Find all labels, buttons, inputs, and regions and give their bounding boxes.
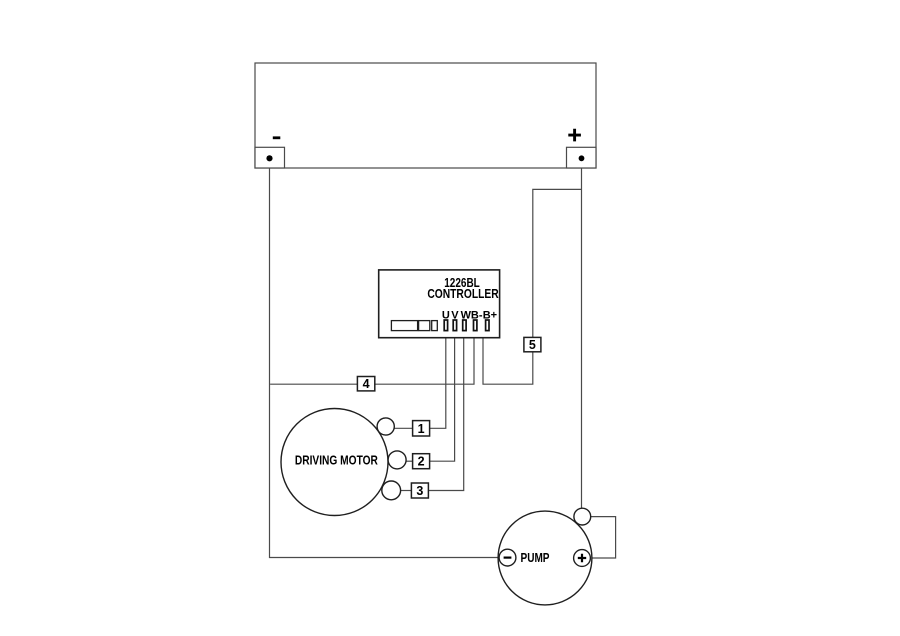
terminal U <box>444 320 447 331</box>
wire U phase (net 1) <box>430 331 446 429</box>
battery negative terminal dot <box>266 155 272 161</box>
wire W phase (net 3) <box>429 331 464 491</box>
svg-text:CONTROLLER: CONTROLLER <box>427 287 498 301</box>
svg-text:1: 1 <box>418 422 425 436</box>
battery positive terminal dot <box>579 155 585 161</box>
svg-text:4: 4 <box>363 377 370 391</box>
controller U1 box <box>379 270 500 338</box>
controller connector block medium <box>419 321 430 331</box>
battery negative terminal box <box>255 147 285 168</box>
terminal V <box>453 320 456 331</box>
junction box 2 <box>413 454 430 469</box>
battery positive terminal box <box>567 147 597 168</box>
wire battery positive down to pump <box>581 161 583 508</box>
controller connector block small <box>432 321 438 331</box>
junction box 3 <box>411 483 428 498</box>
motor terminal 2 <box>388 451 406 469</box>
wire V phase (net 2) <box>430 331 455 461</box>
wire battery negative to pump negative <box>270 161 500 558</box>
controller connector block large <box>391 321 417 331</box>
terminal W <box>463 320 466 331</box>
wire pump positive loop <box>591 517 616 558</box>
motor terminal 3 <box>382 481 401 500</box>
battery minus label <box>273 136 281 139</box>
junction box 1 <box>413 421 430 436</box>
svg-text:2: 2 <box>418 455 425 469</box>
svg-text:5: 5 <box>529 338 536 352</box>
wire box 5 to controller B+ <box>483 331 533 384</box>
wire branch to box 5 <box>533 189 582 337</box>
terminal B+ <box>486 320 489 331</box>
motor terminal 1 <box>377 418 394 435</box>
wire box 2 to motor terminal <box>406 460 413 462</box>
pump top terminal circle <box>574 508 591 525</box>
svg-text:3: 3 <box>416 484 423 498</box>
driving motor M1 body <box>281 409 388 516</box>
svg-text:PUMP: PUMP <box>521 551 550 565</box>
pump negative terminal <box>499 549 516 566</box>
wire box 1 to motor terminal <box>394 427 412 429</box>
wire net 4 (B- line) <box>270 331 474 384</box>
pump M2 body <box>498 511 592 605</box>
battery B1 outline <box>255 63 596 168</box>
pump positive terminal <box>574 550 591 567</box>
junction box 4 <box>357 377 374 392</box>
terminal B- <box>474 320 477 331</box>
battery plus label <box>568 129 581 142</box>
junction box 5 <box>524 337 541 352</box>
svg-text:DRIVING MOTOR: DRIVING MOTOR <box>295 454 378 468</box>
wire box 3 to motor terminal <box>401 490 412 492</box>
